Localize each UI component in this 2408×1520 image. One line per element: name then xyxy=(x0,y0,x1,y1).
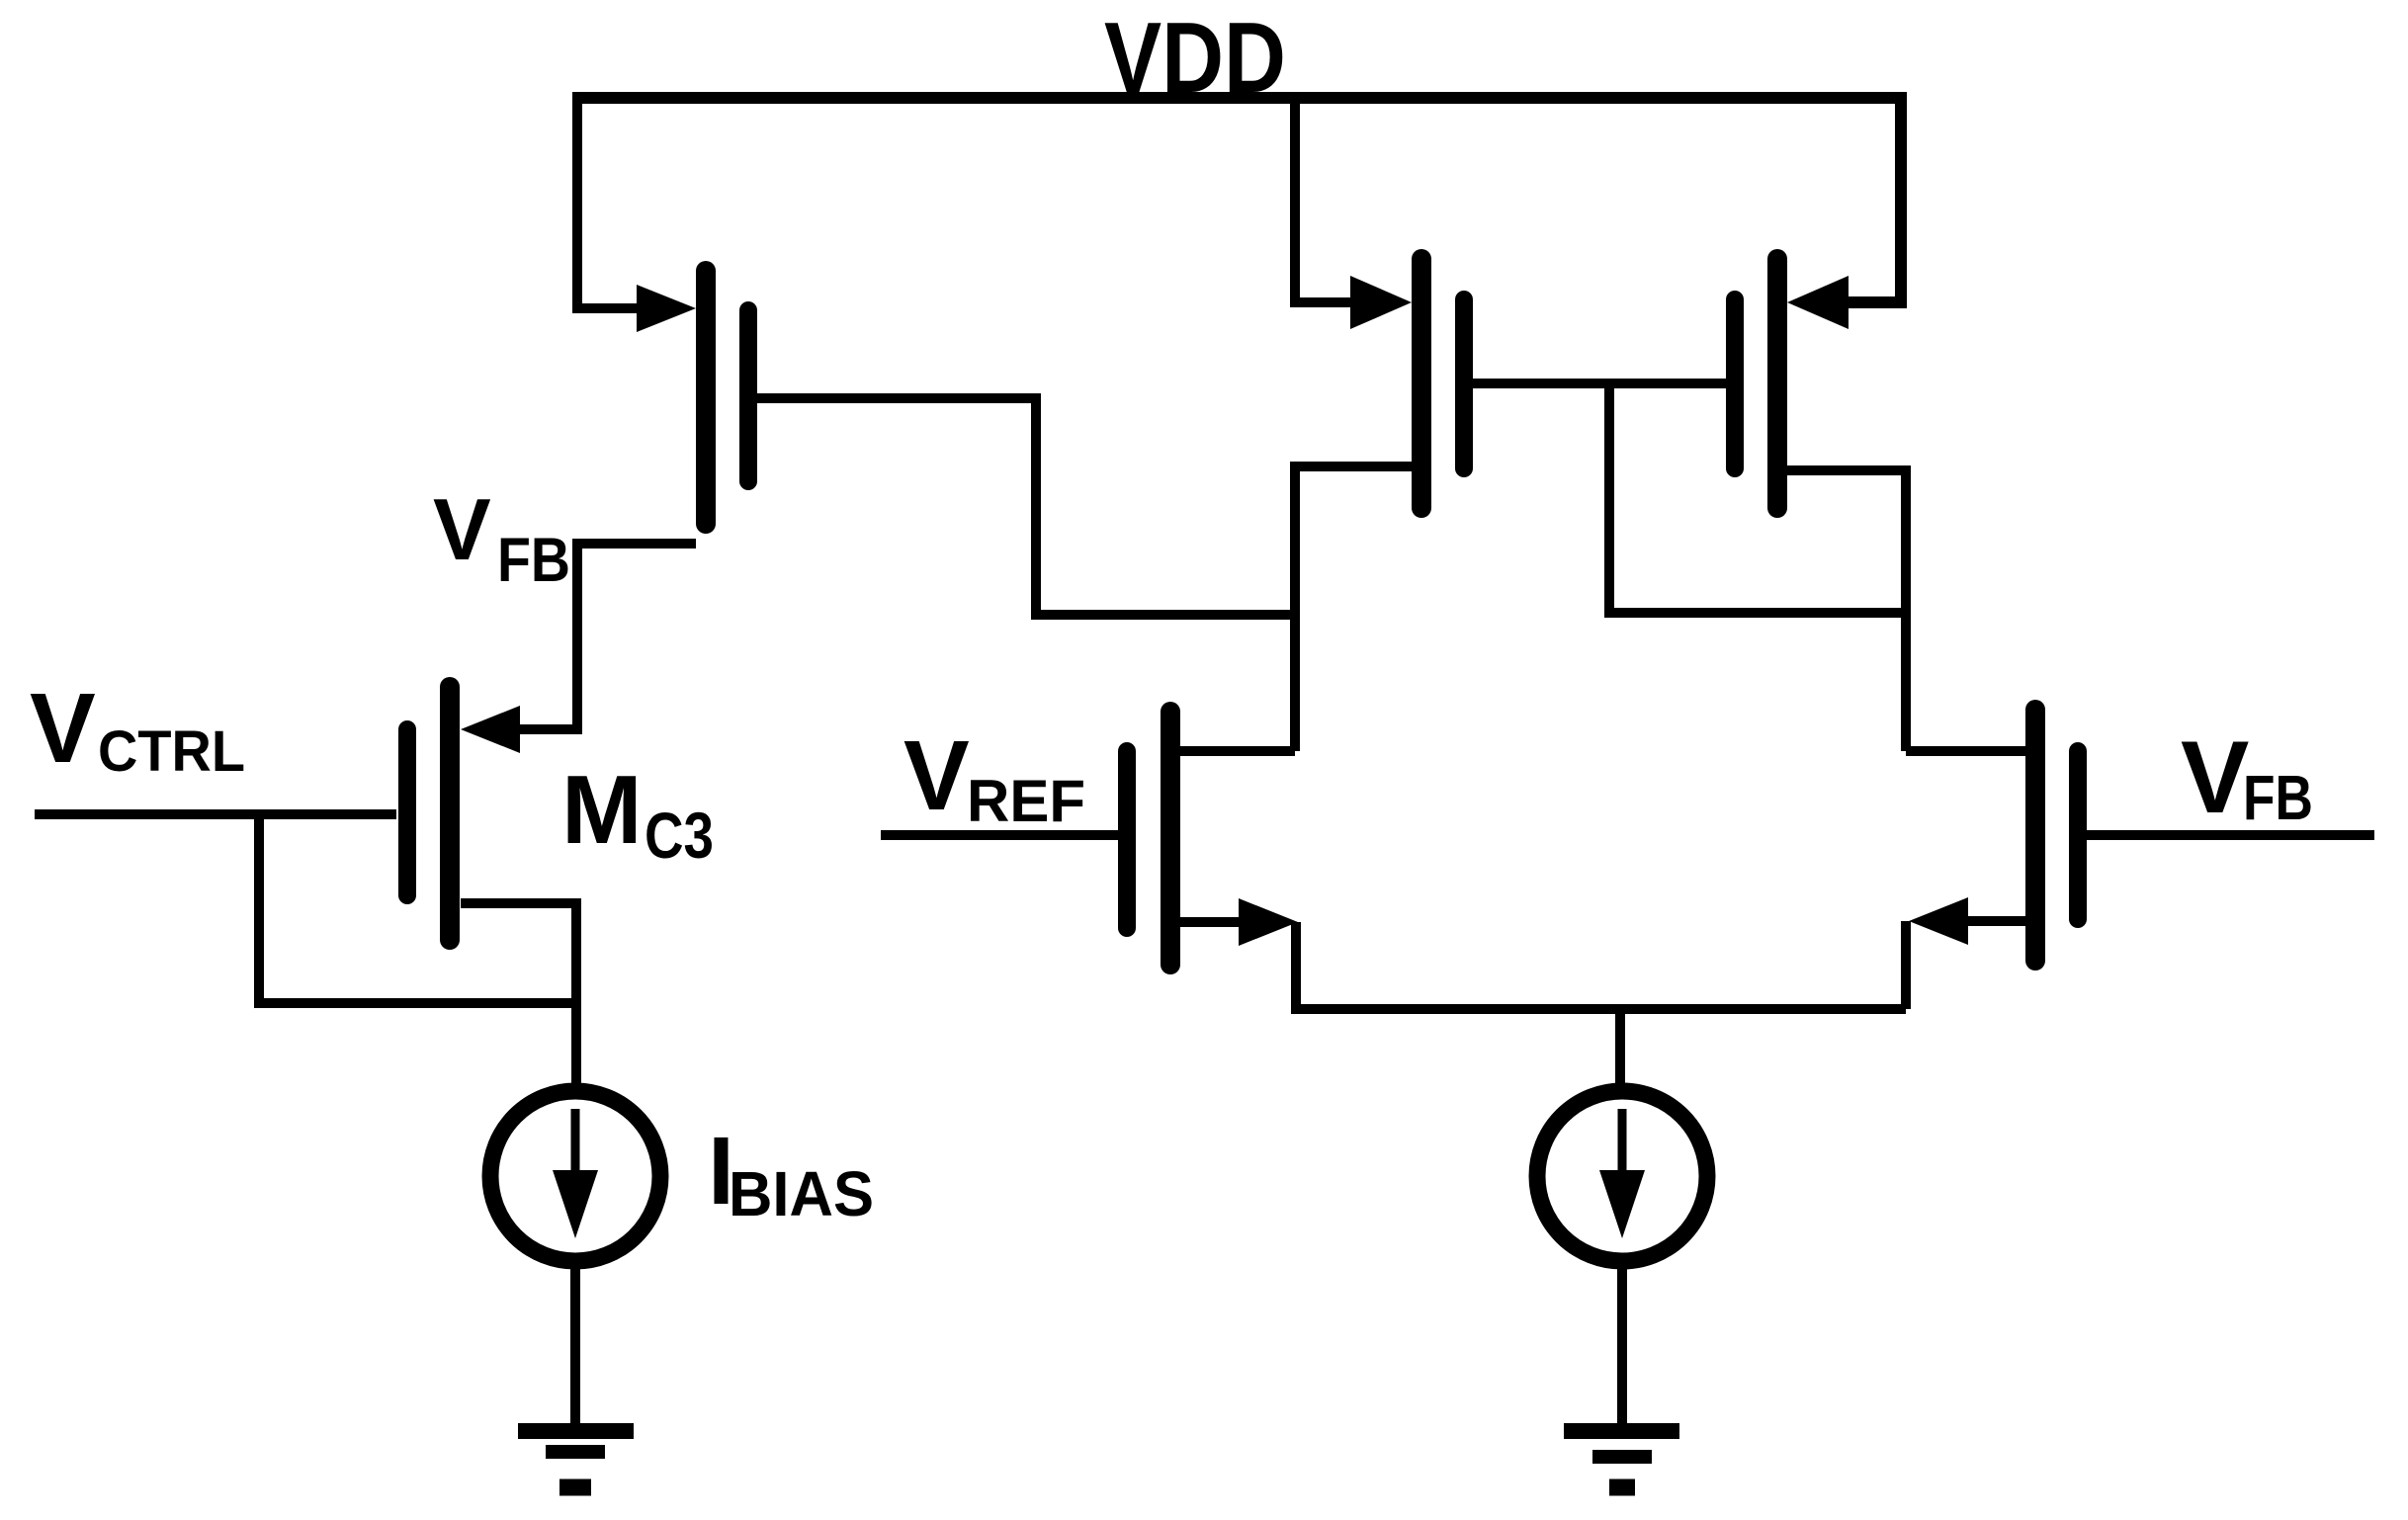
wire M1 drain to left branch xyxy=(1180,746,1295,756)
wire tail node to current source xyxy=(1615,1009,1625,1087)
wire VCTRL loop to MC3 source xyxy=(259,814,576,1003)
transistor MP1 (top-left PMOS) xyxy=(706,271,748,524)
svg-text:V: V xyxy=(903,720,970,831)
ground (right) xyxy=(1564,1431,1679,1487)
current source I tail (right) xyxy=(1537,1091,1707,1261)
wire MP1 drain to node VFB xyxy=(577,544,696,729)
wire MP3 drain to left branch xyxy=(1295,466,1412,751)
wire M1 source step down xyxy=(1296,922,1906,1009)
wire VDD rail xyxy=(572,92,1907,104)
transistor MC3 (control NMOS) xyxy=(407,687,450,940)
svg-text:V: V xyxy=(30,673,96,784)
junction arrow MP3 source xyxy=(1350,276,1412,329)
svg-text:M: M xyxy=(561,755,643,864)
wire VDD drop to MP1 source xyxy=(577,97,645,308)
net VFB label (right input) xyxy=(2181,720,2313,835)
wire VFB input xyxy=(2087,830,2374,840)
junction arrow MC3 drain xyxy=(461,706,520,753)
wire M2 drain to right branch xyxy=(1906,746,2025,756)
wire tail current source to ground xyxy=(1617,1261,1627,1431)
net VCTRL label xyxy=(30,673,245,784)
svg-text:V: V xyxy=(2181,720,2249,835)
wire VDD drop to MP3 source xyxy=(1295,97,1360,302)
wire VDD drop to MP4 source xyxy=(1839,97,1901,302)
wire M2 source step down xyxy=(1901,921,1911,1009)
wire VCTRL input xyxy=(35,809,396,819)
transistor MP4 (mirror right PMOS) xyxy=(1735,259,1777,508)
wire MP3 MP4 gates tied to right branch xyxy=(1473,383,1906,613)
current source IBIAS label xyxy=(708,1117,874,1229)
wire MP1 gate to left output node xyxy=(757,398,1295,615)
net VREF label xyxy=(903,720,1085,834)
wire MP4 drain to right branch xyxy=(1787,470,1906,751)
current source IBIAS xyxy=(490,1091,660,1261)
junction arrow MP4 source xyxy=(1787,276,1849,329)
svg-text:C3: C3 xyxy=(645,799,714,872)
svg-text:CTRL: CTRL xyxy=(98,719,245,784)
junction arrow MP1 source xyxy=(637,285,696,332)
ground (left) xyxy=(518,1431,634,1487)
svg-text:BIAS: BIAS xyxy=(729,1158,874,1229)
node VFB label (left) xyxy=(433,480,570,595)
wire VREF input xyxy=(881,830,1118,840)
svg-text:FB: FB xyxy=(497,526,570,595)
wire MC3 source down to IBIAS xyxy=(461,903,576,1087)
svg-text:V: V xyxy=(433,480,491,578)
svg-text:REF: REF xyxy=(967,768,1085,834)
transistor M1 (diff pair left NMOS) xyxy=(1127,712,1170,965)
wire IBIAS to ground xyxy=(570,1261,580,1431)
svg-text:FB: FB xyxy=(2243,762,2313,833)
transistor MP3 (mirror left PMOS) xyxy=(1421,259,1464,508)
junction arrow M2 source xyxy=(1909,897,1968,945)
transistor M2 (diff pair right NMOS) xyxy=(2035,710,2078,961)
junction arrow M1 source xyxy=(1239,898,1298,946)
wire M1 source to tail node xyxy=(1180,917,1244,927)
wire MC3 drain up to node VFB xyxy=(514,544,577,729)
wire M2 source xyxy=(1963,916,2025,926)
transistor MC3 label xyxy=(561,755,714,872)
